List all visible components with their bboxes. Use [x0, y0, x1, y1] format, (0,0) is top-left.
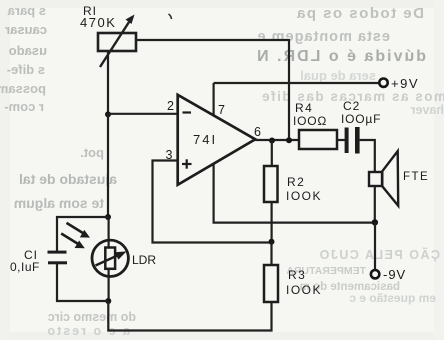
svg-text:LDR: LDR	[132, 253, 156, 267]
svg-text:sera de qual: sera de qual	[300, 68, 376, 83]
wire: pin 7 up to +9V rail	[213, 83, 215, 115]
svg-text:usado: usado	[9, 43, 47, 58]
output node junction	[269, 138, 275, 144]
LDR photoresistor	[92, 240, 128, 276]
wire: output pin 6 to R4	[255, 139, 299, 141]
R1 reference label	[83, 4, 97, 18]
svg-text:ajustado de tal: ajustado de tal	[19, 171, 117, 187]
wire: R2 bottom to divider node	[271, 202, 273, 242]
svg-text:do mesmo circ: do mesmo circ	[48, 310, 136, 324]
C2 value label 100uF	[341, 112, 381, 126]
wire: node A down to LDR top node	[107, 114, 109, 217]
wire: R4 to C2	[337, 139, 345, 141]
node B junction (LDR top / C1 top)	[105, 214, 111, 220]
speaker/-9V junction	[372, 219, 378, 225]
C1 reference label	[24, 248, 38, 262]
feedback node junction	[286, 137, 292, 143]
wire: LDR top node into LDR	[107, 217, 109, 248]
svg-text:6: 6	[254, 125, 261, 139]
svg-text:74I: 74I	[193, 132, 217, 147]
capacitor C1 plates	[48, 251, 68, 265]
svg-text:IOOK: IOOK	[286, 189, 322, 203]
wire: bottom return (node C to R3 bottom)	[108, 301, 271, 331]
resistor R2 body	[264, 166, 278, 202]
show-through text: top right (mirrored)	[255, 5, 444, 117]
svg-text:s para: s para	[7, 3, 46, 18]
wire: output node down to R2	[271, 141, 273, 167]
svg-text:s dife-: s dife-	[7, 62, 45, 77]
svg-text:esta montagem e: esta montagem e	[257, 29, 390, 45]
wire: speaker down to -9V node	[374, 186, 376, 223]
svg-text:IOOK: IOOK	[286, 283, 322, 297]
svg-text:470K: 470K	[80, 15, 116, 30]
wire: C1 branch bottom	[57, 264, 108, 301]
speaker FTE coil box	[369, 172, 382, 186]
wire: R1 bottom to node A	[107, 51, 109, 114]
svg-text:R2: R2	[287, 175, 305, 189]
svg-text:te som algum: te som algum	[14, 195, 104, 211]
show-through text: left margin (mirrored)	[0, 3, 117, 211]
wire: pin 4 down to -9V rail	[214, 164, 375, 223]
R4 value label 100 ohm	[293, 114, 327, 128]
svg-text:pot.: pot.	[80, 145, 104, 160]
wire: pin 3 path to divider node	[153, 161, 272, 243]
C2 reference label	[343, 99, 360, 113]
svg-text:em questão e c: em questão e c	[349, 291, 436, 305]
svg-text:7: 7	[218, 103, 225, 117]
-9V label	[383, 267, 406, 282]
-9V terminal	[371, 270, 379, 278]
pin 3 label	[166, 148, 173, 162]
FTE label	[403, 171, 429, 183]
svg-text:causar: causar	[5, 22, 47, 37]
R2 reference label	[287, 175, 305, 189]
svg-text:-9V: -9V	[383, 267, 406, 282]
C1 value label 0,1uF	[10, 260, 40, 274]
LDR label	[132, 253, 156, 267]
potentiometer R1 wiper arrow	[100, 15, 135, 68]
light arrow 2	[61, 234, 85, 249]
op-amp type label 741	[193, 132, 217, 147]
wire: R1 right side to feedback corner, down to output node	[136, 40, 289, 140]
R1 value label 470K	[80, 15, 116, 30]
pin 7 label	[218, 103, 225, 117]
svg-text:haver: haver	[411, 103, 444, 117]
svg-text:possam: possam	[0, 81, 46, 96]
wire: +9V rail	[214, 82, 380, 84]
non-inverting input plus sign	[182, 159, 192, 168]
pin 2 label	[167, 99, 174, 113]
show-through text: bottom right (mirrored)	[45, 247, 440, 338]
wire: divider node to R3	[270, 242, 272, 265]
svg-text:dúvida é o LDR. N: dúvida é o LDR. N	[255, 48, 426, 65]
node C junction (LDR bottom / C1 bottom)	[105, 298, 111, 304]
op-amp U1 741 triangle	[178, 95, 256, 185]
inverting input minus sign	[183, 111, 192, 113]
R4 reference label	[295, 101, 313, 115]
resistor R4 body	[299, 130, 337, 149]
light arrow 1	[67, 223, 91, 238]
svg-text:+9V: +9V	[391, 76, 419, 91]
svg-text:IOOµF: IOOµF	[341, 112, 381, 126]
potentiometer R1 body	[98, 33, 136, 51]
stray ink tick near top	[169, 14, 172, 19]
svg-text:FTE: FTE	[403, 171, 429, 183]
svg-text:De todos os pa: De todos os pa	[295, 5, 424, 22]
wire: junction down to -9V terminal	[374, 222, 376, 270]
divider node junction	[269, 239, 275, 245]
R3 reference label	[288, 268, 306, 282]
speaker FTE cone	[382, 151, 398, 206]
capacitor C2 plates	[345, 127, 360, 154]
resistor R3 body	[264, 265, 278, 302]
wire: LDR bottom to node C	[107, 269, 109, 301]
svg-text:ÇÃO PELA CUJO: ÇÃO PELA CUJO	[318, 247, 440, 262]
R2 value label 100K	[286, 189, 322, 203]
svg-text:R4: R4	[295, 101, 313, 115]
svg-text:r com-: r com-	[4, 99, 44, 114]
wire: C2 to speaker	[360, 140, 375, 172]
+9V label	[391, 76, 419, 91]
svg-text:C2: C2	[343, 99, 360, 113]
wire: node A to op-amp pin 2	[108, 113, 178, 115]
svg-text:IOOΩ: IOOΩ	[293, 114, 327, 128]
+9V terminal	[379, 79, 387, 87]
svg-text:2: 2	[167, 99, 174, 113]
wire: C1 branch top	[57, 217, 108, 251]
pin 6 label	[254, 125, 261, 139]
node A junction (inverting input node)	[105, 111, 111, 117]
R3 value label 100K	[286, 283, 322, 297]
svg-text:0,IuF: 0,IuF	[10, 260, 40, 274]
svg-text:R3: R3	[288, 268, 306, 282]
